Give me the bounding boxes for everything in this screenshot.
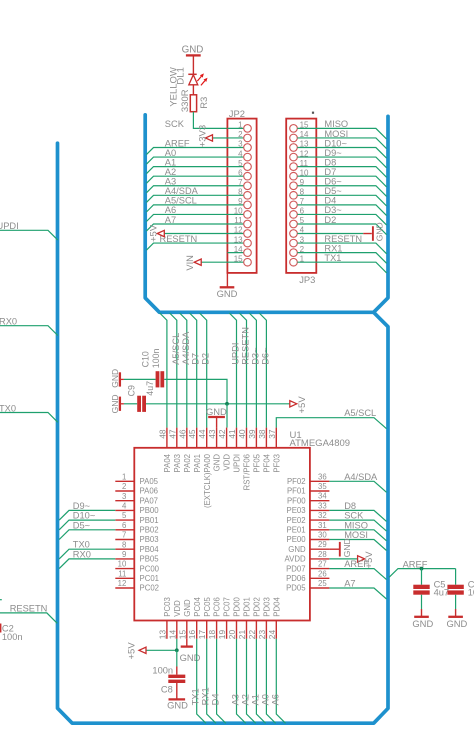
svg-text:39: 39	[247, 429, 257, 439]
svg-text:RESETN: RESETN	[241, 327, 251, 365]
svg-text:PE00: PE00	[287, 535, 307, 544]
svg-text:VDD: VDD	[173, 600, 182, 617]
svg-text:13: 13	[234, 235, 243, 244]
svg-text:+3V3: +3V3	[197, 125, 208, 147]
svg-text:GND: GND	[110, 369, 120, 388]
svg-text:4: 4	[238, 149, 243, 158]
svg-text:PD07: PD07	[286, 564, 306, 573]
svg-text:5: 5	[238, 159, 243, 168]
svg-text:GND: GND	[182, 44, 204, 55]
svg-text:6: 6	[122, 521, 126, 530]
svg-text:35: 35	[318, 482, 327, 491]
svg-text:DL1: DL1	[176, 67, 187, 84]
svg-text:19: 19	[217, 630, 227, 640]
svg-text:D2: D2	[324, 215, 336, 225]
svg-text:PA02: PA02	[183, 454, 192, 473]
svg-text:26: 26	[318, 569, 327, 578]
svg-text:A4/SDA: A4/SDA	[165, 186, 199, 196]
svg-text:AVDD: AVDD	[285, 555, 306, 564]
svg-text:PF02: PF02	[287, 477, 306, 486]
svg-text:PA06: PA06	[140, 487, 159, 496]
svg-text:PC01: PC01	[140, 574, 160, 583]
svg-text:PF01: PF01	[287, 487, 306, 496]
svg-text:D3~: D3~	[250, 347, 260, 365]
svg-text:14: 14	[167, 630, 177, 640]
svg-text:38: 38	[257, 429, 267, 439]
svg-text:A6: A6	[165, 205, 176, 215]
svg-text:A6: A6	[270, 694, 280, 705]
svg-text:TX1: TX1	[191, 688, 201, 705]
svg-text:A7: A7	[165, 215, 176, 225]
svg-text:RX1: RX1	[201, 687, 211, 705]
svg-text:SCK: SCK	[344, 511, 364, 521]
svg-text:10: 10	[118, 560, 127, 569]
svg-text:1: 1	[122, 472, 126, 481]
svg-text:VIN: VIN	[185, 255, 195, 271]
svg-text:PB03: PB03	[140, 535, 159, 544]
svg-text:PD03: PD03	[263, 597, 272, 617]
svg-text:A4/SDA: A4/SDA	[181, 331, 191, 365]
svg-text:AREF: AREF	[165, 138, 190, 148]
svg-text:RX0: RX0	[73, 549, 91, 559]
svg-text:A7: A7	[344, 579, 355, 589]
svg-text:9: 9	[238, 197, 243, 206]
svg-text:34: 34	[318, 492, 327, 501]
svg-text:15: 15	[177, 630, 187, 640]
svg-text:GND: GND	[213, 454, 222, 472]
svg-text:36: 36	[318, 472, 327, 481]
svg-text:PC03: PC03	[163, 597, 172, 617]
svg-text:SCK: SCK	[165, 119, 185, 129]
svg-text:2: 2	[122, 482, 126, 491]
svg-text:R3: R3	[199, 97, 210, 109]
svg-text:4: 4	[122, 502, 127, 511]
svg-text:27: 27	[318, 560, 327, 569]
svg-text:GND: GND	[342, 538, 352, 557]
svg-text:24: 24	[267, 630, 277, 640]
svg-text:PB00: PB00	[140, 506, 160, 515]
svg-text:D7: D7	[324, 167, 336, 177]
svg-text:PD04: PD04	[272, 597, 281, 617]
svg-text:D6~: D6~	[324, 177, 342, 187]
svg-text:PF04: PF04	[263, 453, 272, 472]
svg-text:A0: A0	[165, 148, 176, 158]
svg-text:PD05: PD05	[286, 584, 306, 593]
svg-text:20: 20	[227, 630, 237, 640]
svg-text:D6~: D6~	[260, 347, 270, 365]
svg-text:UPDI: UPDI	[0, 221, 19, 231]
svg-text:29: 29	[318, 540, 327, 549]
svg-text:2: 2	[238, 130, 243, 139]
svg-text:44: 44	[197, 429, 207, 439]
svg-text:43: 43	[207, 429, 217, 439]
svg-text:D8: D8	[344, 501, 356, 511]
svg-text:RESETN: RESETN	[324, 234, 362, 244]
svg-text:RST/PF06: RST/PF06	[243, 454, 252, 490]
svg-text:GND: GND	[110, 395, 120, 414]
svg-text:+5V: +5V	[297, 396, 308, 414]
svg-text:TX0: TX0	[0, 403, 16, 413]
svg-text:RX0: RX0	[0, 317, 17, 327]
svg-text:5: 5	[122, 511, 127, 520]
svg-text:PB05: PB05	[140, 555, 160, 564]
svg-text:8: 8	[238, 187, 243, 196]
svg-text:A4/SDA: A4/SDA	[344, 472, 378, 482]
svg-text:D2: D2	[201, 353, 211, 365]
svg-text:AREF: AREF	[344, 559, 369, 569]
svg-text:TX1: TX1	[324, 253, 341, 263]
svg-text:PC00: PC00	[140, 564, 160, 573]
svg-text:MISO: MISO	[344, 520, 368, 530]
svg-text:100n: 100n	[152, 666, 173, 676]
svg-text:25: 25	[318, 579, 327, 588]
svg-text:GND: GND	[206, 406, 227, 417]
svg-text:42: 42	[217, 429, 227, 439]
svg-text:D9~: D9~	[324, 148, 342, 158]
svg-text:13: 13	[157, 630, 167, 640]
svg-text:A3: A3	[165, 177, 176, 187]
svg-text:31: 31	[318, 521, 327, 530]
svg-text:9: 9	[122, 550, 126, 559]
svg-text:32: 32	[318, 511, 327, 520]
svg-text:PC04: PC04	[193, 597, 202, 617]
svg-text:UPDI: UPDI	[231, 343, 241, 365]
svg-text:4u7: 4u7	[145, 381, 155, 396]
svg-text:RESETN: RESETN	[10, 604, 48, 614]
svg-text:23: 23	[257, 630, 267, 640]
svg-text:UPDI: UPDI	[233, 454, 242, 473]
svg-text:4u7: 4u7	[434, 588, 450, 598]
svg-text:C9: C9	[126, 385, 136, 396]
svg-text:18: 18	[207, 630, 217, 640]
svg-text:11: 11	[118, 569, 126, 578]
svg-text:D9~: D9~	[73, 501, 91, 511]
svg-text:12: 12	[234, 226, 243, 235]
svg-text:PA01: PA01	[193, 454, 202, 473]
svg-text:37: 37	[267, 429, 277, 439]
svg-text:GND: GND	[180, 652, 201, 663]
svg-text:PA05: PA05	[140, 477, 159, 486]
svg-text:33: 33	[318, 501, 327, 510]
svg-text:C10: C10	[140, 351, 150, 367]
svg-text:GND: GND	[446, 618, 467, 629]
svg-text:PF03: PF03	[272, 454, 281, 473]
svg-text:PE01: PE01	[287, 526, 306, 535]
svg-text:45: 45	[187, 429, 197, 439]
svg-text:17: 17	[197, 630, 207, 640]
svg-text:GND: GND	[288, 545, 306, 554]
svg-text:15: 15	[234, 254, 243, 263]
svg-text:330R: 330R	[180, 89, 191, 112]
svg-text:8: 8	[122, 540, 126, 549]
svg-text:PD06: PD06	[286, 574, 306, 583]
svg-text:+5V: +5V	[127, 642, 138, 660]
svg-text:D4: D4	[324, 196, 336, 206]
svg-text:(EXTCLK)PA00: (EXTCLK)PA00	[203, 453, 212, 508]
svg-text:100n: 100n	[468, 588, 474, 598]
svg-text:JP2: JP2	[229, 108, 245, 119]
svg-text:14: 14	[234, 245, 243, 254]
svg-text:PE03: PE03	[287, 506, 306, 515]
svg-text:30: 30	[318, 531, 327, 540]
svg-text:D10~: D10~	[73, 511, 96, 521]
svg-text:100n: 100n	[2, 632, 23, 642]
svg-text:PC05: PC05	[203, 597, 212, 617]
svg-text:10: 10	[234, 207, 243, 216]
svg-text:D3~: D3~	[324, 205, 342, 215]
svg-text:GND: GND	[183, 599, 192, 617]
svg-text:D5~: D5~	[73, 520, 91, 530]
svg-text:PD01: PD01	[243, 597, 252, 617]
svg-text:PA03: PA03	[173, 454, 182, 473]
svg-text:RESETN: RESETN	[160, 234, 198, 244]
svg-text:PB02: PB02	[140, 526, 159, 535]
svg-text:A1: A1	[250, 694, 260, 705]
svg-text:A1: A1	[165, 157, 176, 167]
svg-text:C8: C8	[161, 685, 173, 695]
svg-text:PC07: PC07	[223, 597, 232, 617]
svg-text:PB04: PB04	[140, 545, 160, 554]
svg-text:22: 22	[247, 630, 257, 640]
svg-text:A2: A2	[165, 167, 176, 177]
svg-text:PF00: PF00	[287, 496, 306, 505]
svg-text:12: 12	[118, 579, 127, 588]
svg-text:A5/SCL: A5/SCL	[165, 196, 197, 206]
svg-text:7: 7	[238, 178, 243, 187]
svg-text:16: 16	[187, 630, 197, 640]
svg-text:100n: 100n	[151, 349, 161, 369]
svg-text:MOSI: MOSI	[324, 129, 348, 139]
svg-text:A5/SCL: A5/SCL	[171, 333, 181, 365]
svg-text:47: 47	[167, 429, 177, 439]
svg-text:GND: GND	[167, 699, 188, 710]
svg-text:PC06: PC06	[213, 597, 222, 617]
svg-text:28: 28	[318, 550, 327, 559]
svg-text:7: 7	[122, 531, 126, 540]
svg-text:PE02: PE02	[287, 516, 306, 525]
svg-text:GND: GND	[217, 288, 238, 299]
svg-text:GND: GND	[374, 222, 384, 241]
svg-text:PD02: PD02	[253, 597, 262, 617]
svg-text:TX0: TX0	[73, 540, 90, 550]
svg-text:A3: A3	[231, 694, 241, 705]
svg-text:3: 3	[238, 140, 243, 149]
svg-text:46: 46	[177, 429, 187, 439]
svg-text:A0: A0	[260, 694, 270, 705]
svg-text:MISO: MISO	[324, 119, 348, 129]
svg-text:PC02: PC02	[140, 584, 160, 593]
svg-text:40: 40	[237, 429, 247, 439]
svg-text:A5/SCL: A5/SCL	[344, 408, 376, 418]
svg-text:JP3: JP3	[299, 274, 315, 285]
svg-text:PD00: PD00	[233, 597, 242, 617]
svg-text:3: 3	[122, 492, 126, 501]
svg-text:D5~: D5~	[324, 186, 342, 196]
svg-text:41: 41	[227, 429, 237, 439]
svg-text:D10~: D10~	[324, 138, 347, 148]
svg-text:+5V: +5V	[148, 224, 159, 242]
svg-text:6: 6	[238, 168, 243, 177]
svg-text:A2: A2	[241, 694, 251, 705]
svg-text:ATMEGA4809: ATMEGA4809	[290, 438, 351, 449]
svg-text:D8: D8	[324, 157, 336, 167]
svg-text:21: 21	[237, 630, 247, 640]
svg-text:1: 1	[238, 121, 243, 130]
svg-text:PF05: PF05	[253, 453, 262, 472]
svg-text:AREF: AREF	[403, 559, 428, 569]
svg-text:PA07: PA07	[140, 496, 159, 505]
svg-text:VDD: VDD	[223, 454, 232, 471]
svg-text:48: 48	[157, 429, 167, 439]
svg-text:11: 11	[234, 216, 243, 225]
svg-text:PB01: PB01	[140, 516, 159, 525]
svg-text:RX1: RX1	[324, 243, 342, 253]
svg-text:PA04: PA04	[163, 453, 172, 472]
svg-text:D4: D4	[211, 694, 221, 706]
svg-text:D7: D7	[191, 353, 201, 365]
svg-text:GND: GND	[412, 618, 433, 629]
